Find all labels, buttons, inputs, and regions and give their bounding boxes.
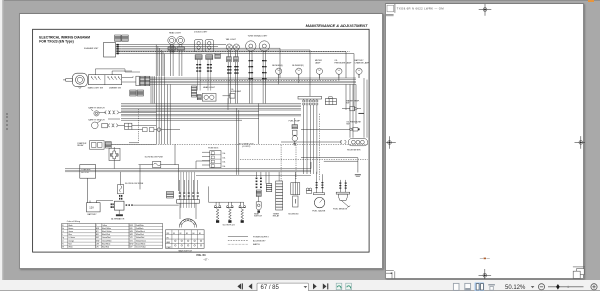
svg-text:White: White <box>68 246 72 249</box>
svg-text:HOUR METER: HOUR METER <box>347 150 361 152</box>
svg-text:SOLENOID: SOLENOID <box>288 213 299 215</box>
svg-text:ALTERNATOR: ALTERNATOR <box>111 218 125 221</box>
svg-text:Red/Black: Red/Black <box>136 228 144 230</box>
svg-text:15A: 15A <box>222 152 226 155</box>
svg-text:TURN SIGNAL LIGHT: TURN SIGNAL LIGHT <box>248 34 269 37</box>
svg-text:POWER SUPPLY: POWER SUPPLY <box>253 237 270 239</box>
svg-text:Blue/Red: Blue/Red <box>102 247 109 249</box>
svg-text:Orange: Orange <box>68 239 74 242</box>
svg-text:FUEL GAUGE: FUEL GAUGE <box>312 210 325 213</box>
svg-text:Lg: Lg <box>62 237 64 239</box>
svg-text:Blue/White: Blue/White <box>102 242 110 245</box>
svg-text:CHARGE LAMP: CHARGE LAMP <box>355 61 370 64</box>
svg-text:GLOW PLUG: GLOW PLUG <box>223 224 236 226</box>
svg-text:RELAY: RELAY <box>77 144 84 147</box>
svg-text:White/Black: White/Black <box>136 230 145 233</box>
svg-text:B/W: B/W <box>96 228 100 230</box>
svg-text:SW: SW <box>346 124 349 126</box>
svg-text:FUSE BOX: FUSE BOX <box>208 148 219 150</box>
svg-text:MAINTENANCE & ADJUSTMENT: MAINTENANCE & ADJUSTMENT <box>306 23 368 28</box>
svg-text:Green/Red: Green/Red <box>102 236 110 239</box>
svg-text:Brown/White: Brown/White <box>136 242 146 245</box>
svg-text:MAIN SWITCH: MAIN SWITCH <box>179 250 193 253</box>
svg-text:Black/Yellow: Black/Yellow <box>102 231 112 233</box>
svg-text:Brown: Brown <box>68 227 73 230</box>
svg-text:HEAD LIGHT: HEAD LIGHT <box>169 32 182 35</box>
svg-text:DIMMER SW: DIMMER SW <box>109 88 121 90</box>
svg-text:B5: B5 <box>199 233 201 235</box>
svg-text:BLINKER(R): BLINKER(R) <box>292 65 304 67</box>
svg-text:MOTOR: MOTOR <box>81 172 89 174</box>
svg-text:B2: B2 <box>180 233 182 235</box>
svg-text:ON: ON <box>166 238 168 240</box>
svg-text:HEAT: HEAT <box>166 241 170 244</box>
svg-text:Br/W: Br/W <box>130 242 134 245</box>
svg-text:Red: Red <box>68 243 71 245</box>
svg-text:Black/Red: Black/Red <box>102 234 110 236</box>
svg-text:LAMP: LAMP <box>315 61 321 64</box>
svg-text:SWITCH: SWITCH <box>254 216 262 218</box>
svg-text:Lt Green: Lt Green <box>68 236 75 239</box>
svg-text:Green: Green <box>68 230 73 233</box>
svg-text:FLASHER UNIT: FLASHER UNIT <box>84 47 99 50</box>
svg-text:Blue: Blue <box>68 234 71 236</box>
svg-text:HEAD LIGHT: HEAD LIGHT <box>203 86 216 89</box>
svg-text:15A: 15A <box>222 156 226 159</box>
svg-text:Yellow: Yellow <box>102 225 108 227</box>
svg-text:SW: SW <box>346 103 349 105</box>
svg-text:PRESSURE LAMP: PRESSURE LAMP <box>334 61 352 64</box>
svg-text:B3: B3 <box>186 233 188 235</box>
svg-text:15A: 15A <box>222 161 226 164</box>
svg-text:12V: 12V <box>89 206 94 210</box>
svg-text:B4: B4 <box>192 233 194 235</box>
svg-text:MAIN LIGHT SW: MAIN LIGHT SW <box>88 87 103 90</box>
svg-text:White/Red: White/Red <box>136 233 144 236</box>
svg-text:Red/White: Red/White <box>136 224 144 227</box>
svg-text:R/W: R/W <box>130 225 134 227</box>
svg-text:2 BULB LIGHT: 2 BULB LIGHT <box>194 32 208 34</box>
svg-text:Green/White: Green/White <box>102 239 112 242</box>
svg-text:FOR TXG23 (EN Type): FOR TXG23 (EN Type) <box>39 40 73 44</box>
svg-text:SLOW BLOW FUSE: SLOW BLOW FUSE <box>125 183 144 185</box>
svg-text:SLOW BLOW FUSE: SLOW BLOW FUSE <box>145 157 164 159</box>
svg-text:ACCESSORY: ACCESSORY <box>253 239 266 242</box>
svg-text:L/W: L/W <box>96 243 99 245</box>
svg-text:STARTER: STARTER <box>81 168 91 171</box>
svg-text:SAFETY SWITCH: SAFETY SWITCH <box>88 119 105 122</box>
svg-text:L: L <box>62 234 63 236</box>
svg-text:Color of Wiring: Color of Wiring <box>67 221 80 223</box>
svg-text:TAIL LIGHT: TAIL LIGHT <box>226 38 237 41</box>
svg-text:RELAY: RELAY <box>273 215 280 218</box>
svg-text:Br: Br <box>62 227 64 230</box>
svg-text:B1: B1 <box>173 233 175 235</box>
svg-text:Yellow/Red: Yellow/Red <box>136 237 144 239</box>
svg-text:FUEL SENSOR: FUEL SENSOR <box>333 208 348 210</box>
svg-text:EARTH: EARTH <box>253 243 260 246</box>
svg-text:SAFETY SWITCH: SAFETY SWITCH <box>88 107 105 110</box>
svg-text:Yellow/Green: Yellow/Green <box>136 239 146 242</box>
svg-text:TXG8.6R N 6622 LWRK — OM: TXG8.6R N 6622 LWRK — OM <box>396 7 443 11</box>
svg-text:BLINKER(L): BLINKER(L) <box>272 65 283 67</box>
svg-text:G/W: G/W <box>96 240 100 242</box>
svg-text:Green/Yellow: Green/Yellow <box>136 246 147 249</box>
svg-text:ELECTRICAL WIRING DIAGRAM: ELECTRICAL WIRING DIAGRAM <box>39 35 90 39</box>
svg-text:- 67 -: - 67 - <box>203 258 209 261</box>
svg-text:Black: Black <box>68 225 72 227</box>
svg-text:FIG. 64: FIG. 64 <box>197 253 206 257</box>
svg-text:Black/White: Black/White <box>102 227 111 230</box>
svg-text:START: START <box>166 246 171 249</box>
svg-text:(4 JOINT): (4 JOINT) <box>242 146 251 148</box>
svg-text:OFF: OFF <box>166 233 169 235</box>
svg-text:15A: 15A <box>222 165 226 168</box>
svg-text:HORN LAMP: HORN LAMP <box>231 90 242 93</box>
svg-text:BATTERY: BATTERY <box>88 213 98 216</box>
